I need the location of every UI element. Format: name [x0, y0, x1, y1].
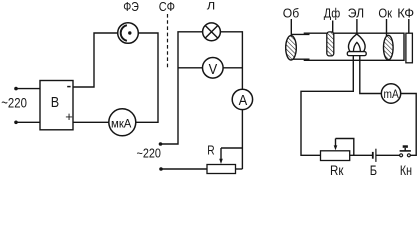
- photocell cassette KF: [406, 33, 413, 63]
- rheostat R: [207, 148, 242, 174]
- leader KF: [408, 19, 410, 33]
- rheostat Rk: [321, 139, 354, 161]
- photocell FE: [118, 23, 139, 44]
- svg-text:mA: mA: [384, 89, 399, 101]
- wire: [236, 168, 243, 170]
- wire: [136, 33, 158, 122]
- milliammeter mA: [381, 84, 400, 103]
- voltmeter V: [203, 58, 224, 79]
- push button Kn: [400, 145, 411, 157]
- tube: main body: [304, 33, 404, 60]
- node: AC terminal middle top: [159, 142, 163, 146]
- svg-text:Ок: Ок: [378, 6, 392, 21]
- ammeter A: [232, 89, 252, 109]
- wire: [376, 154, 400, 156]
- standard lamp EL flame: [347, 34, 366, 56]
- lamp L: [203, 23, 221, 41]
- light filter SF (dashed): [167, 14, 169, 69]
- lens Ob: [286, 36, 297, 60]
- wire: [241, 110, 243, 169]
- svg-text:~220: ~220: [1, 95, 27, 110]
- svg-text:V: V: [209, 61, 218, 78]
- leader Ok: [386, 19, 388, 36]
- svg-text:Дф: Дф: [324, 6, 341, 21]
- microammeter mkA: [109, 109, 136, 136]
- label minus: [67, 86, 70, 88]
- node: AC terminal top-left: [14, 87, 18, 91]
- node: AC terminal bottom-left: [14, 121, 18, 125]
- svg-text:А: А: [239, 92, 248, 109]
- svg-text:~220: ~220: [137, 146, 161, 161]
- wire: [223, 67, 242, 69]
- diaphragm Df: [327, 32, 334, 56]
- svg-text:+: +: [65, 109, 73, 124]
- tube: objective barrel: [292, 33, 310, 35]
- wire: [16, 121, 40, 123]
- wire: lamp right lead: [360, 56, 382, 94]
- svg-text:ФЭ: ФЭ: [123, 0, 139, 14]
- svg-text:R: R: [207, 143, 214, 158]
- svg-text:Rк: Rк: [330, 163, 344, 177]
- rectifier B: [40, 81, 73, 130]
- wire: [161, 32, 203, 144]
- svg-text:Л: Л: [207, 1, 216, 13]
- wire: [350, 154, 373, 156]
- battery B: [373, 149, 376, 162]
- leader Ob: [290, 19, 292, 37]
- lens Ok: [384, 35, 394, 60]
- leader Df: [332, 21, 334, 33]
- wire: [16, 88, 40, 90]
- svg-text:мкА: мкА: [111, 116, 132, 130]
- svg-text:КФ: КФ: [397, 6, 414, 21]
- wire: lamp left lead: [301, 56, 353, 156]
- leader EL: [356, 19, 358, 34]
- wire: [73, 33, 118, 87]
- svg-text:Б: Б: [370, 163, 377, 177]
- wire: [161, 168, 207, 170]
- svg-text:ЭЛ: ЭЛ: [348, 6, 364, 21]
- svg-text:В: В: [51, 94, 59, 111]
- wire: [220, 32, 242, 89]
- wire: [73, 121, 109, 123]
- wire: [401, 94, 417, 156]
- wire: [178, 67, 203, 69]
- svg-text:СФ: СФ: [159, 0, 175, 14]
- node: AC terminal middle bottom: [159, 167, 163, 171]
- svg-text:Об: Об: [283, 6, 299, 21]
- svg-text:Кн: Кн: [400, 163, 412, 177]
